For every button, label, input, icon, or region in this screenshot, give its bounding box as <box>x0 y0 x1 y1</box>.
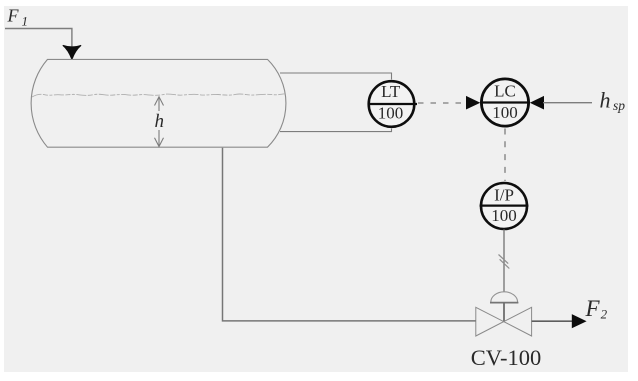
wire setpoint line <box>543 102 592 104</box>
svg-text:sp: sp <box>613 98 625 113</box>
outlet arrowhead F2 <box>572 314 587 328</box>
feed arrowhead into tank <box>63 45 81 59</box>
instrument LT 100 <box>368 81 418 127</box>
control valve body CV-100 <box>476 307 504 336</box>
svg-text:100: 100 <box>492 103 518 122</box>
outlet pipe <box>532 320 573 322</box>
instrument I/P 100 <box>480 183 529 229</box>
svg-text:CV-100: CV-100 <box>471 345 541 370</box>
signal line I/P to valve <box>503 230 505 293</box>
svg-text:h: h <box>600 88 611 113</box>
wire tank to LT (top) <box>280 73 392 80</box>
pipe from tank bottom <box>223 148 476 321</box>
svg-text:100: 100 <box>491 206 517 225</box>
svg-text:LT: LT <box>381 82 401 101</box>
liquid level wavy line <box>32 94 285 97</box>
instrument LC 100 <box>480 79 530 126</box>
arrowhead into LC (right) <box>530 96 544 110</box>
double slash marks <box>499 255 509 264</box>
tank vessel <box>31 59 286 147</box>
svg-text:LC: LC <box>494 82 516 101</box>
arrowhead into LC (left) <box>466 96 480 110</box>
dashed signal LT to LC <box>418 102 466 104</box>
wire feed line F1 <box>5 29 72 48</box>
valve actuator dome <box>491 292 518 302</box>
svg-text:I/P: I/P <box>494 186 514 205</box>
dashed signal LC to I/P <box>504 129 506 182</box>
svg-text:h: h <box>155 111 165 132</box>
level arrow h (double headed) <box>155 97 164 147</box>
wire tank to LT (bottom) <box>280 129 392 132</box>
svg-text:100: 100 <box>378 104 404 123</box>
valve stem <box>503 303 505 322</box>
